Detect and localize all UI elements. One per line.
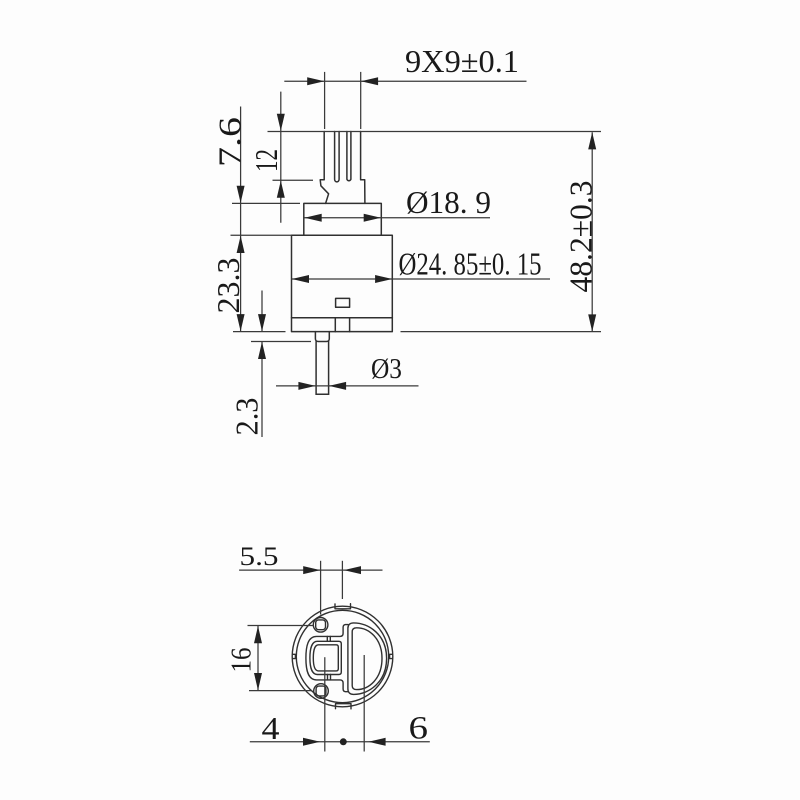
svg-text:12: 12 <box>249 149 284 172</box>
svg-text:9X9±0.1: 9X9±0.1 <box>405 44 519 79</box>
svg-text:7.6: 7.6 <box>213 117 248 167</box>
svg-text:Ø18. 9: Ø18. 9 <box>406 185 491 220</box>
svg-text:16: 16 <box>226 648 258 673</box>
svg-text:2.3: 2.3 <box>230 398 265 436</box>
svg-text:48.2±0.3: 48.2±0.3 <box>563 181 599 293</box>
svg-text:Ø24. 85±0. 15: Ø24. 85±0. 15 <box>399 247 542 282</box>
svg-text:6: 6 <box>409 711 429 747</box>
svg-text:4: 4 <box>262 710 280 746</box>
svg-text:Ø3: Ø3 <box>371 354 402 385</box>
svg-text:23.3: 23.3 <box>211 258 246 314</box>
svg-text:5.5: 5.5 <box>240 542 279 571</box>
